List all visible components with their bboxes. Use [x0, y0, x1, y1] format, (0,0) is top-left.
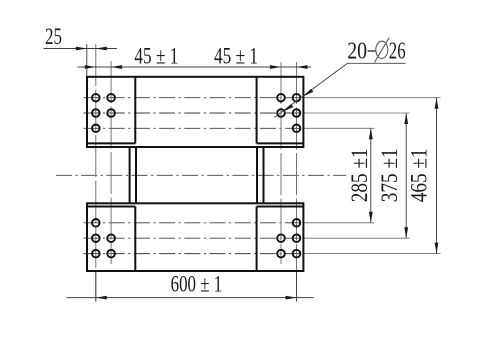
top plate outline: [87, 77, 303, 147]
bottom plate outline: [87, 203, 303, 271]
centerline hole row b1 bottom: [84, 222, 306, 224]
dimension 285 vertical: [370, 128, 372, 223]
svg-text:45 ± 1: 45 ± 1: [214, 44, 258, 69]
centerline hole column c4: [296, 62, 298, 302]
svg-text:285 ±1: 285 ±1: [347, 148, 372, 202]
top left block bottom line: [87, 142, 135, 144]
centerline hole column c1: [95, 44, 97, 302]
extension line row b3 to 465 dim: [306, 253, 441, 255]
dimension 25: [44, 44, 118, 76]
svg-text:600 ± 1: 600 ± 1: [171, 272, 223, 297]
bottom left block top line: [87, 206, 135, 208]
svg-text:25: 25: [45, 24, 62, 49]
svg-text:375 ±1: 375 ±1: [377, 148, 402, 202]
centerline hole column c2: [110, 61, 112, 264]
svg-text:45 ± 1: 45 ± 1: [134, 44, 178, 69]
centerline hole row b2 bottom: [84, 237, 306, 239]
label 20-dia26 text: [347, 38, 405, 65]
centerline hole row b3 bottom: [84, 253, 306, 255]
top plate right block divider: [256, 77, 258, 144]
centerline hole row r2 top: [84, 112, 306, 114]
extension line row r3 to 285 dim: [306, 127, 375, 129]
extension line row b1 to 285 dim: [306, 222, 375, 224]
extension line row r2 to 375 dim: [306, 112, 410, 114]
leader second arrowhead at lower hole: [283, 104, 293, 112]
dimension 45 left and right shared line: [78, 66, 312, 68]
svg-text:20: 20: [347, 39, 367, 65]
holes top-right block: [277, 94, 300, 132]
bottom right block top line: [257, 206, 304, 208]
holes top-left block: [92, 94, 115, 132]
centerline hole row r1 top: [84, 97, 306, 99]
extension line row r1 to 465 dim: [306, 97, 441, 99]
extension line row b2 to 375 dim: [306, 237, 410, 239]
dimension 465 vertical: [436, 98, 438, 254]
bottom plate right block divider: [256, 207, 258, 272]
dimension 375 vertical: [405, 113, 407, 238]
centerline main horizontal: [56, 174, 346, 176]
centerline hole row r3 top: [84, 127, 306, 129]
right connecting bar: [257, 147, 264, 203]
left connecting bar: [130, 147, 136, 203]
holes bottom-left block: [92, 219, 115, 257]
holes bottom-right block: [277, 219, 300, 257]
top right block bottom line: [257, 142, 304, 144]
svg-text:465 ±1: 465 ±1: [407, 148, 432, 202]
svg-text:26: 26: [389, 39, 406, 65]
dimension 600: [67, 272, 314, 301]
top plate left block divider: [134, 77, 136, 144]
bottom plate left block divider: [134, 207, 136, 272]
centerline hole column c3: [280, 62, 282, 264]
label 20-dia26 leader: [274, 63, 405, 117]
